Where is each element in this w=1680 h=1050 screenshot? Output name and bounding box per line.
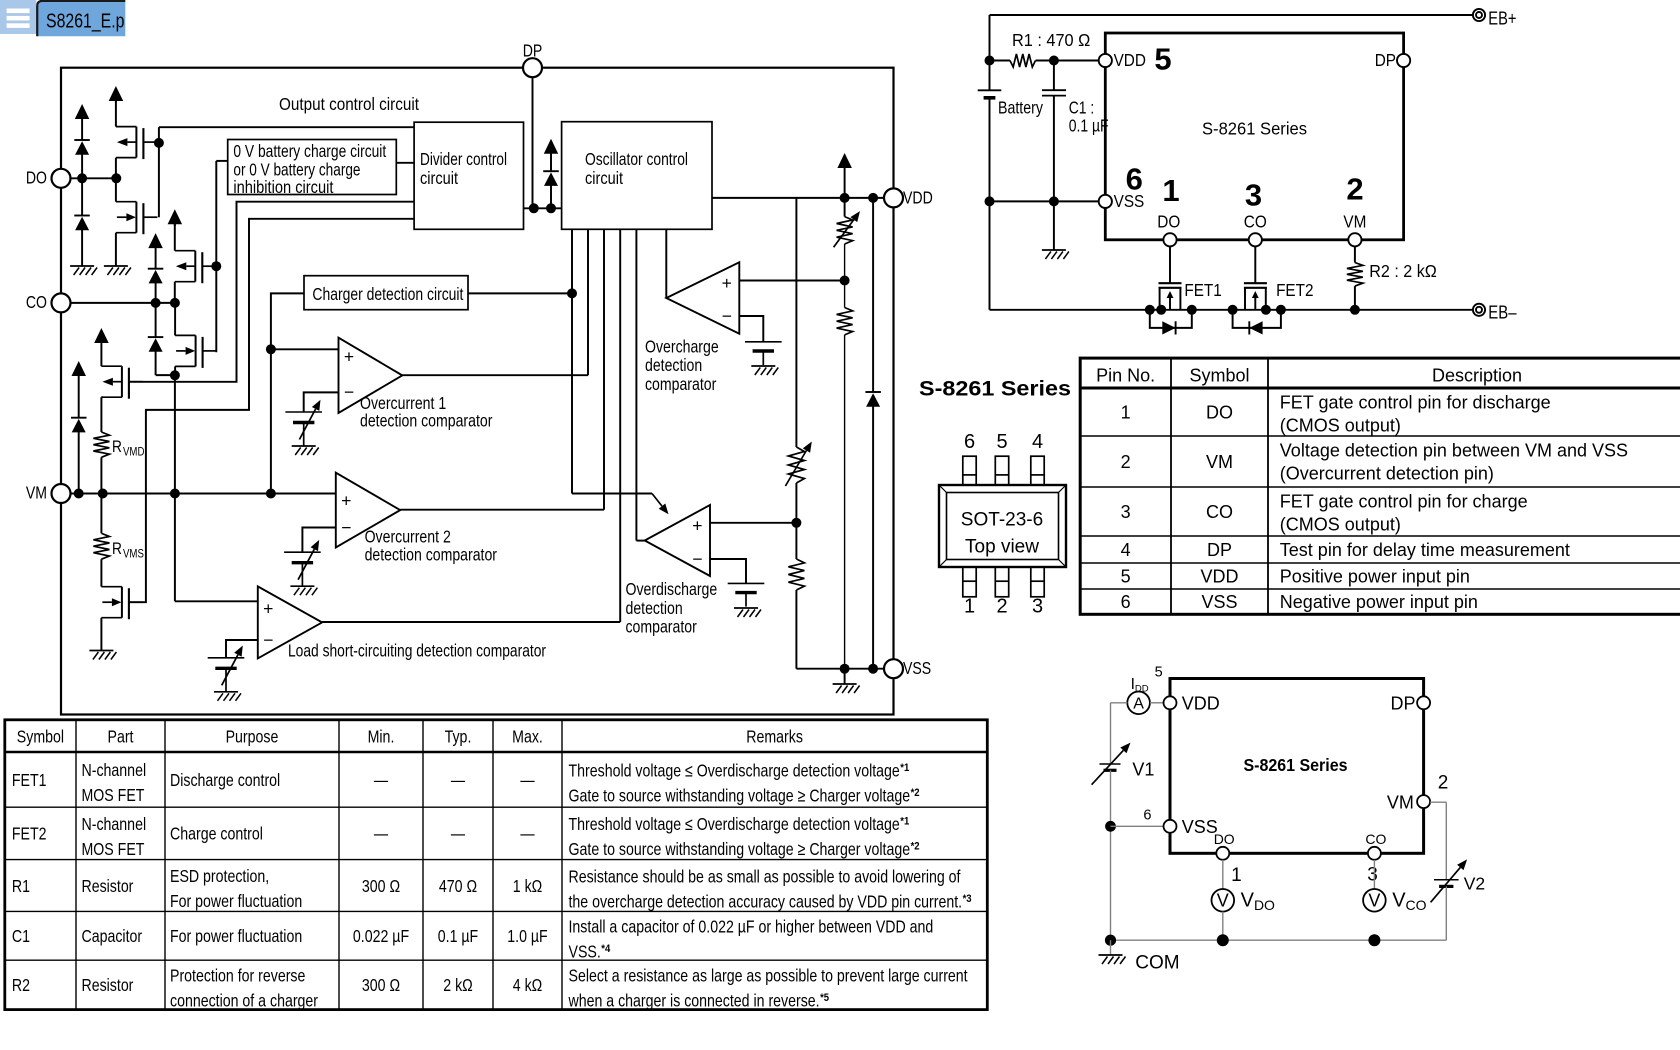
ground G9 [833, 684, 860, 693]
svg-text:Pin No.: Pin No. [1096, 366, 1155, 386]
svg-text:—: — [451, 770, 465, 790]
reference VREF4 [745, 342, 782, 365]
svg-text:FET2: FET2 [1276, 280, 1313, 300]
capacitor C1 [1042, 61, 1109, 202]
svg-text:VMS: VMS [123, 548, 144, 561]
ground COM [1099, 940, 1180, 973]
svg-text:0.1 µF: 0.1 µF [1069, 116, 1109, 136]
svg-text:C1: C1 [12, 926, 30, 946]
resistor RVMS [93, 494, 144, 561]
svg-text:VMD: VMD [123, 446, 144, 459]
IC box S-8261 [1105, 33, 1403, 240]
transistor M6 [101, 559, 142, 650]
svg-text:0 V battery charge circuit: 0 V battery charge circuit [233, 141, 386, 161]
wire charger right net [468, 288, 577, 298]
menu button [0, 0, 36, 34]
wire OCH minus [739, 316, 763, 342]
svg-text:Resistor: Resistor [82, 975, 134, 995]
svg-text:Threshold voltage ≤ Overdischa: Threshold voltage ≤ Overdischarge detect… [569, 760, 900, 780]
svg-text:S-8261 Series: S-8261 Series [1202, 118, 1307, 138]
svg-text:−: − [692, 549, 702, 569]
svg-text:MOS FET: MOS FET [82, 839, 145, 859]
svg-text:S8261_E.p: S8261_E.p [46, 9, 125, 32]
diode D1 [74, 140, 90, 174]
svg-text:V: V [1217, 891, 1229, 911]
pin CO [26, 292, 71, 313]
svg-text:SOT-23-6: SOT-23-6 [961, 510, 1043, 531]
pin DO test [1214, 831, 1235, 860]
svg-text:4: 4 [1121, 540, 1131, 560]
wire DO to VDO [1222, 860, 1224, 889]
pin DO app [1157, 212, 1180, 247]
svg-text:Battery: Battery [998, 98, 1043, 118]
svg-text:Charge control: Charge control [170, 824, 263, 844]
reference VREF3 [208, 646, 245, 692]
svg-text:1: 1 [964, 596, 975, 618]
comparator overcurrent1 [339, 338, 493, 431]
svg-text:1: 1 [1162, 173, 1179, 208]
svg-text:+: + [692, 515, 702, 535]
svg-text:FET gate control pin for disch: FET gate control pin for discharge [1280, 393, 1551, 413]
svg-text:0.022 µF: 0.022 µF [353, 926, 409, 946]
package pin 2 bottom [995, 567, 1008, 618]
wire VSS app [985, 196, 1099, 250]
svg-text:—: — [451, 824, 465, 844]
svg-text:2: 2 [1121, 452, 1131, 472]
svg-text:2: 2 [996, 596, 1007, 618]
wire A to VDD [1150, 702, 1164, 704]
transistor M5 [101, 366, 142, 399]
svg-text:3: 3 [1367, 865, 1378, 886]
ground G2 [104, 266, 131, 275]
reference VREF5 [728, 583, 765, 606]
wire osc line1 [572, 229, 652, 493]
supply arrow A5 [72, 361, 87, 418]
svg-text:R: R [112, 438, 122, 456]
svg-text:*1: *1 [900, 762, 909, 774]
rail diode D7 [865, 198, 881, 669]
wire M3 drain [174, 224, 176, 251]
svg-text:6: 6 [1143, 807, 1151, 823]
svg-text:Symbol: Symbol [1189, 366, 1249, 386]
svg-text:Symbol: Symbol [17, 726, 64, 746]
rail divider overdischarge [834, 198, 860, 669]
svg-text:EB–: EB– [1488, 302, 1517, 323]
wire osc line2 [587, 229, 589, 375]
voltmeter VCO [1363, 889, 1427, 913]
pin number 2 test [1438, 773, 1449, 794]
box 0V battery charge circuit [228, 140, 397, 197]
ground G5 [290, 586, 317, 595]
svg-text:CO: CO [1244, 212, 1267, 232]
comparator overcharge [645, 262, 739, 394]
svg-text:R: R [112, 540, 122, 558]
svg-text:detection comparator: detection comparator [365, 544, 498, 564]
svg-text:300 Ω: 300 Ω [362, 876, 400, 896]
svg-text:*2: *2 [911, 787, 920, 799]
svg-text:Positive power input pin: Positive power input pin [1280, 566, 1470, 586]
wire VSS rail [796, 664, 884, 684]
svg-text:comparator: comparator [645, 374, 716, 394]
svg-text:comparator: comparator [626, 617, 697, 637]
svg-text:Max.: Max. [512, 726, 543, 746]
box charger detection circuit [304, 276, 468, 310]
source V2 [1431, 859, 1486, 902]
svg-text:—: — [520, 824, 534, 844]
comparator load short [258, 586, 546, 660]
svg-text:Oscillator control: Oscillator control [585, 149, 688, 169]
pin VM test [1387, 793, 1430, 813]
transistor FET2 [1244, 246, 1314, 309]
wire top EB [990, 14, 1473, 16]
svg-text:FET1: FET1 [1184, 280, 1221, 300]
wire V2 to COM [1445, 886, 1447, 940]
svg-text:detection: detection [645, 355, 702, 375]
package pin 4 top [1031, 431, 1044, 485]
svg-text:VM: VM [26, 483, 47, 503]
terminal EBminus [1473, 302, 1517, 323]
svg-text:R2: R2 [12, 975, 30, 995]
supply arrow A4 [168, 209, 183, 226]
svg-text:VM: VM [1343, 212, 1366, 232]
svg-text:Gate to source withstanding vo: Gate to source withstanding voltage ≥ Ch… [569, 785, 911, 805]
supply arrow A7 [544, 139, 558, 171]
pin VDD test [1164, 694, 1220, 714]
svg-text:2: 2 [1346, 172, 1363, 207]
pin VDD [884, 187, 933, 207]
pin VM [26, 483, 71, 504]
svg-text:S-8261 Series: S-8261 Series [1244, 755, 1348, 775]
resistor R1 [985, 30, 1101, 67]
wire OC2 minus [302, 528, 335, 553]
svg-text:inhibition circuit: inhibition circuit [233, 177, 333, 197]
pin DP [523, 41, 543, 78]
svg-text:VSS: VSS [1182, 817, 1218, 837]
svg-text:−: − [722, 306, 732, 326]
wire VM to V2 [1430, 802, 1446, 880]
supply arrow A2 [109, 86, 124, 102]
svg-text:*5: *5 [820, 992, 829, 1004]
svg-text:Overcharge: Overcharge [645, 336, 719, 356]
wire LS minus [226, 640, 258, 658]
svg-text:VSS: VSS [1201, 592, 1237, 612]
wire M1 drain [115, 101, 117, 127]
svg-text:DO: DO [26, 167, 47, 187]
wire net N4 [175, 375, 258, 601]
svg-text:DP: DP [1375, 50, 1396, 70]
wire M2 source [115, 233, 117, 266]
svg-text:5: 5 [1154, 42, 1171, 77]
svg-text:VM: VM [1206, 452, 1233, 472]
wire CO node [71, 298, 180, 308]
svg-text:FET2: FET2 [12, 824, 47, 844]
wire gate net N1 [154, 127, 414, 217]
svg-text:1.0 µF: 1.0 µF [507, 926, 548, 946]
resistor R2 [1347, 246, 1437, 309]
label IDD [1131, 676, 1149, 695]
svg-text:5: 5 [996, 431, 1007, 453]
svg-text:VDD: VDD [1182, 694, 1220, 714]
svg-text:VDD: VDD [903, 187, 933, 207]
svg-text:Min.: Min. [368, 726, 395, 746]
svg-text:R1 : 470 Ω: R1 : 470 Ω [1012, 30, 1090, 50]
svg-text:VM: VM [1387, 793, 1414, 813]
title S-8261 Series [919, 378, 1071, 401]
svg-text:detection: detection [626, 598, 683, 618]
pin number 5 test [1155, 665, 1163, 681]
node N2 [170, 370, 180, 380]
wire CO to VCO [1373, 860, 1375, 889]
svg-text:5: 5 [1121, 566, 1131, 586]
svg-text:+: + [722, 273, 732, 293]
svg-text:FET gate control pin for charg: FET gate control pin for charge [1280, 492, 1528, 512]
wire M4 source [174, 366, 176, 375]
voltmeter VDO [1212, 889, 1276, 913]
box divider control circuit [414, 122, 523, 229]
pin number 5 [1154, 42, 1171, 77]
svg-text:Voltage detection pin between: Voltage detection pin between VM and VSS [1280, 441, 1628, 461]
ground G1 [70, 266, 97, 275]
svg-text:5: 5 [1155, 665, 1163, 681]
svg-text:EB+: EB+ [1488, 8, 1516, 29]
svg-text:Negative power input pin: Negative power input pin [1280, 592, 1478, 612]
wire M4 drain [174, 303, 176, 336]
ground G4 [292, 446, 319, 455]
svg-text:R1: R1 [12, 876, 30, 896]
reference VREF2 [284, 540, 321, 586]
svg-text:Load short-circuiting detectio: Load short-circuiting detection comparat… [288, 641, 546, 661]
svg-text:Install a capacitor of 0.022 µ: Install a capacitor of 0.022 µF or highe… [569, 917, 934, 937]
svg-text:(CMOS output): (CMOS output) [1280, 416, 1401, 436]
pin description table [1080, 358, 1680, 614]
svg-text:CO: CO [26, 292, 47, 312]
svg-text:Remarks: Remarks [746, 726, 803, 746]
wire M1 source [115, 158, 117, 179]
svg-text:COM: COM [1135, 953, 1179, 974]
wire net L1 [129, 202, 414, 382]
svg-text:—: — [374, 824, 388, 844]
svg-text:+: + [341, 491, 351, 511]
wire gate net N3 [211, 161, 227, 352]
svg-text:4: 4 [1032, 431, 1043, 453]
supply arrow A6 [94, 328, 109, 366]
wire VM node [71, 489, 336, 499]
svg-text:DP: DP [1390, 694, 1415, 714]
ground G8 [734, 608, 761, 617]
node VSS test [1105, 821, 1163, 832]
pin CO test [1365, 831, 1386, 860]
battery BT1 [978, 90, 1043, 117]
svg-text:ESD protection,: ESD protection, [170, 866, 269, 886]
svg-text:Charger detection circuit: Charger detection circuit [312, 284, 463, 304]
svg-text:3: 3 [1032, 596, 1043, 618]
package pin 6 top [963, 431, 976, 485]
pin number 1 test [1231, 865, 1242, 886]
svg-text:−: − [341, 517, 351, 537]
svg-text:Gate to source withstanding vo: Gate to source withstanding voltage ≥ Ch… [569, 839, 911, 859]
svg-text:V2: V2 [1464, 874, 1485, 894]
svg-text:MOS FET: MOS FET [82, 785, 145, 805]
wire LS out [322, 621, 620, 623]
wire A to rail [1111, 703, 1128, 764]
svg-text:VDD: VDD [1114, 50, 1146, 70]
svg-text:1: 1 [1121, 402, 1131, 422]
diode D2 [74, 183, 90, 266]
svg-text:(Overcurrent detection pin): (Overcurrent detection pin) [1280, 464, 1494, 484]
pin VSS app [1099, 191, 1145, 211]
terminal EBplus [1473, 8, 1517, 29]
rail divider overcharge [785, 198, 811, 669]
wire osc line6 [665, 229, 667, 298]
svg-text:VDD: VDD [1200, 566, 1238, 586]
svg-text:CO: CO [1206, 502, 1233, 522]
svg-text:FET1: FET1 [12, 770, 47, 790]
svg-text:Discharge control: Discharge control [170, 770, 280, 790]
svg-text:Divider control: Divider control [420, 149, 507, 169]
svg-text:300 Ω: 300 Ω [362, 975, 400, 995]
svg-text:2 kΩ: 2 kΩ [443, 975, 473, 995]
block diagram border [61, 68, 894, 715]
svg-text:R2 : 2 kΩ: R2 : 2 kΩ [1369, 261, 1437, 281]
svg-text:Overdischarge: Overdischarge [626, 579, 718, 599]
svg-text:V: V [1368, 891, 1380, 911]
diode D3 [148, 269, 164, 303]
svg-text:3: 3 [1245, 178, 1262, 213]
package pin 5 top [995, 431, 1008, 485]
svg-text:connection of a charger: connection of a charger [170, 990, 318, 1010]
pin VSS test [1164, 817, 1218, 837]
comparator overcurrent2 [336, 473, 497, 565]
transistor FET1 [1159, 246, 1222, 309]
wire OC1 plus [271, 348, 339, 350]
svg-text:2: 2 [1438, 773, 1449, 794]
svg-text:Protection for reverse: Protection for reverse [170, 965, 306, 985]
ground G3 [89, 651, 116, 660]
svg-text:DO: DO [1157, 212, 1180, 232]
svg-text:C1 :: C1 : [1069, 98, 1095, 118]
svg-text:*3: *3 [963, 893, 972, 905]
wire net L2 [129, 219, 414, 602]
diode D5 [71, 418, 87, 494]
svg-text:N-channel: N-channel [82, 760, 147, 780]
wire M5 source [101, 397, 102, 432]
svg-text:Test pin for delay time measur: Test pin for delay time measurement [1280, 540, 1570, 560]
body diode FET2 [1233, 310, 1281, 335]
svg-text:1 kΩ: 1 kΩ [513, 876, 543, 896]
svg-text:0.1 µF: 0.1 µF [438, 926, 479, 946]
test IC box [1170, 679, 1424, 854]
wire bottom EB [990, 305, 1473, 315]
reference VREF1 [285, 400, 322, 446]
supply arrow A3 [148, 233, 163, 269]
svg-text:DO: DO [1214, 831, 1235, 847]
wire DP net [524, 77, 562, 213]
resistor RVMD [93, 432, 144, 494]
pin DP app [1375, 50, 1411, 70]
ground G6 [214, 692, 241, 701]
wire VDD rail [712, 193, 884, 203]
wire ODH minus [710, 559, 746, 583]
transistor M2 [116, 202, 157, 235]
svg-text:+: + [263, 598, 273, 618]
svg-text:−: − [344, 382, 354, 402]
supply arrow A1 [75, 104, 90, 140]
svg-text:VSS: VSS [903, 658, 931, 678]
pin VM app [1343, 212, 1366, 247]
svg-text:Purpose: Purpose [226, 726, 279, 746]
svg-text:—: — [374, 770, 388, 790]
ground G10 [1042, 250, 1069, 259]
svg-text:S-8261 Series: S-8261 Series [919, 378, 1071, 401]
svg-text:circuit: circuit [585, 168, 623, 188]
pin VDD app [1099, 50, 1146, 70]
svg-text:(CMOS output): (CMOS output) [1280, 515, 1401, 535]
svg-text:Select a resistance as large a: Select a resistance as large as possible… [569, 966, 968, 986]
svg-text:6: 6 [1126, 162, 1143, 197]
svg-text:6: 6 [964, 431, 975, 453]
svg-text:DO: DO [1206, 402, 1233, 422]
wire osc line5 [636, 229, 644, 540]
transistor M4 [175, 335, 217, 368]
svg-text:Capacitor: Capacitor [82, 926, 143, 946]
package SOT-23-6 [939, 485, 1066, 567]
svg-text:Typ.: Typ. [445, 726, 472, 746]
wire OC1 minus [304, 392, 339, 412]
svg-text:V1: V1 [1132, 760, 1154, 780]
svg-text:Part: Part [108, 726, 134, 746]
package pin 1 bottom [963, 567, 976, 618]
wire ODH plus [710, 522, 796, 524]
wire left rail [989, 15, 991, 310]
box oscillator control circuit [562, 122, 712, 230]
svg-text:CO: CO [1365, 831, 1386, 847]
pin number 6 test [1143, 807, 1151, 823]
pin VSS [884, 658, 931, 678]
transistor M3 [175, 251, 217, 284]
svg-text:Resistor: Resistor [82, 876, 134, 896]
wire osc line4 [619, 229, 621, 622]
svg-text:+: + [344, 346, 354, 366]
wire M2 drain [115, 178, 117, 201]
wire OC1 out [402, 374, 588, 376]
svg-text:—: — [520, 770, 534, 790]
diode D4 [148, 303, 175, 375]
svg-text:the overcharge detection accur: the overcharge detection accuracy caused… [569, 891, 963, 911]
wire OCH plus [739, 280, 844, 282]
wire osc line3 [603, 229, 605, 509]
svg-text:VSS.: VSS. [569, 942, 601, 962]
svg-text:4 kΩ: 4 kΩ [513, 975, 543, 995]
svg-text:when a charger is connected in: when a charger is connected in reverse. [568, 991, 820, 1011]
wire VDO to COM [1222, 912, 1224, 941]
svg-text:470 Ω: 470 Ω [439, 876, 477, 896]
svg-text:Description: Description [1432, 366, 1522, 386]
svg-text:For power fluctuation: For power fluctuation [170, 891, 302, 911]
svg-text:For power fluctuation: For power fluctuation [170, 926, 302, 946]
svg-text:3: 3 [1121, 502, 1131, 522]
svg-text:A: A [1133, 695, 1144, 712]
pin CO app [1244, 212, 1267, 247]
diode D6 [543, 171, 559, 208]
wire OC2 out [400, 509, 604, 511]
body diode FET1 [1150, 310, 1192, 335]
svg-text:1: 1 [1231, 865, 1242, 886]
wire charger left net [266, 293, 304, 493]
supply arrow A8 [837, 153, 852, 198]
svg-text:Resistance should be as small: Resistance should be as small as possibl… [569, 866, 961, 886]
pin number 1 [1162, 173, 1179, 208]
wire DO node [71, 173, 122, 183]
